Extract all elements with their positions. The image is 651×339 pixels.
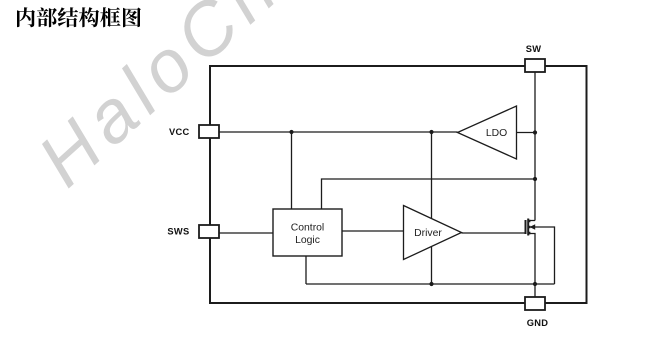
svg-text:SW: SW xyxy=(526,44,542,54)
svg-text:Driver: Driver xyxy=(414,228,442,239)
svg-text:GND: GND xyxy=(527,318,549,328)
svg-text:SWS: SWS xyxy=(167,226,189,236)
svg-text:Logic: Logic xyxy=(295,235,320,246)
svg-text:VCC: VCC xyxy=(169,127,190,137)
svg-text:LDO: LDO xyxy=(486,128,507,139)
svg-text:Control: Control xyxy=(291,223,325,234)
